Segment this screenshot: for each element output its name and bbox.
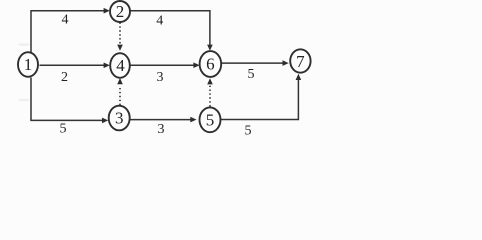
svg-text:4: 4 [156,13,163,28]
svg-text:3: 3 [115,109,124,128]
svg-text:6: 6 [206,55,215,74]
svg-text:7: 7 [296,52,305,71]
svg-text:3: 3 [157,70,164,85]
svg-text:5: 5 [206,111,215,130]
svg-text:3: 3 [158,122,165,137]
svg-text:5: 5 [248,67,255,82]
svg-text:5: 5 [245,124,252,139]
svg-text:2: 2 [116,2,125,21]
svg-text:1: 1 [24,55,33,74]
svg-text:5: 5 [60,122,67,137]
svg-text:4: 4 [116,56,125,75]
svg-text:2: 2 [61,70,68,85]
svg-text:4: 4 [62,13,69,28]
